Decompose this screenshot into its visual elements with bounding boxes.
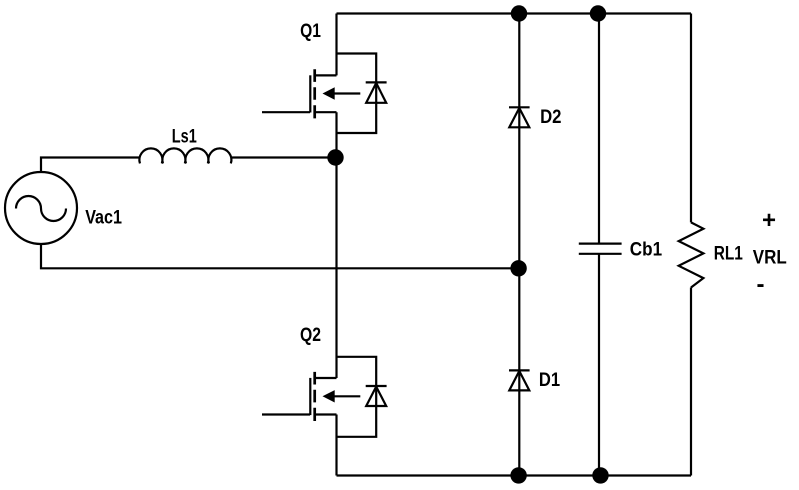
Q2 gate bar xyxy=(309,378,311,415)
svg-text:D1: D1 xyxy=(539,370,561,391)
svg-text:RL1: RL1 xyxy=(714,244,744,265)
Q2 source lead xyxy=(316,413,337,415)
junction dot top rail / Cb1 xyxy=(590,5,606,21)
wire Q2 source vertical xyxy=(335,415,337,476)
wire inductor to node A xyxy=(231,156,336,158)
wire top rail xyxy=(337,12,692,14)
wire Q1 source to Q2 drain vertical xyxy=(335,112,337,378)
wire bottom rail xyxy=(337,474,692,476)
Q1 source lead xyxy=(316,111,337,113)
resistor RL1 xyxy=(679,222,704,287)
transistor Q2 xyxy=(262,357,387,437)
wire RL1 bottom lead xyxy=(690,288,692,476)
junction dot bottom rail / Cb1 xyxy=(592,467,608,483)
Q2 body diode triangle xyxy=(366,387,386,406)
transistor Q1 xyxy=(262,54,387,134)
junction dot middle rail / D leg xyxy=(510,260,526,276)
svg-text:Q2: Q2 xyxy=(300,325,321,346)
Q1 gate lead xyxy=(262,111,310,113)
voltage source Vac1 xyxy=(5,172,77,244)
Q2 channel segments xyxy=(313,372,316,421)
svg-text:Vac1: Vac1 xyxy=(85,208,122,229)
node A junction dot (Ls1/Q1/Q2) xyxy=(327,149,343,165)
Q2 drain lead xyxy=(316,377,337,379)
Q1 drain lead xyxy=(316,74,337,76)
svg-text:D2: D2 xyxy=(540,107,561,128)
wire Q1 drain vertical xyxy=(335,14,337,76)
capacitor Cb1 xyxy=(579,244,622,254)
diode D2 xyxy=(509,107,530,127)
svg-text:Ls1: Ls1 xyxy=(172,127,197,148)
wire Vac1 top lead xyxy=(41,158,140,173)
wire Cb1 top lead xyxy=(598,14,600,244)
Q2 gate lead xyxy=(262,413,310,415)
junction dot top rail / D2 xyxy=(511,5,527,21)
svg-text:Q1: Q1 xyxy=(300,21,321,42)
inductor Ls1 xyxy=(139,148,231,163)
Q2 substrate arrow xyxy=(333,395,360,397)
Q1 body diode bar xyxy=(366,81,387,83)
svg-text:-: - xyxy=(757,271,765,298)
svg-text:VRL: VRL xyxy=(753,248,787,269)
Q1 gate bar xyxy=(309,75,311,112)
Q1 body diode loop xyxy=(337,54,377,134)
Q1 channel segments xyxy=(313,69,316,118)
wire middle rail (Vac1 bottom to node) xyxy=(41,244,519,268)
wire RL1 top lead xyxy=(690,14,692,223)
Q2 body diode loop xyxy=(337,357,377,437)
svg-text:+: + xyxy=(762,207,776,234)
diode D1 xyxy=(509,370,530,390)
wire D2/D1 leg vertical xyxy=(518,14,520,476)
Q1 substrate arrow xyxy=(333,92,360,94)
Q1 body diode triangle xyxy=(366,83,386,103)
junction dot bottom rail / D1 xyxy=(510,467,526,483)
svg-text:Cb1: Cb1 xyxy=(630,239,663,260)
wire Cb1 bottom lead xyxy=(598,254,600,476)
Q2 body diode bar xyxy=(366,385,387,387)
